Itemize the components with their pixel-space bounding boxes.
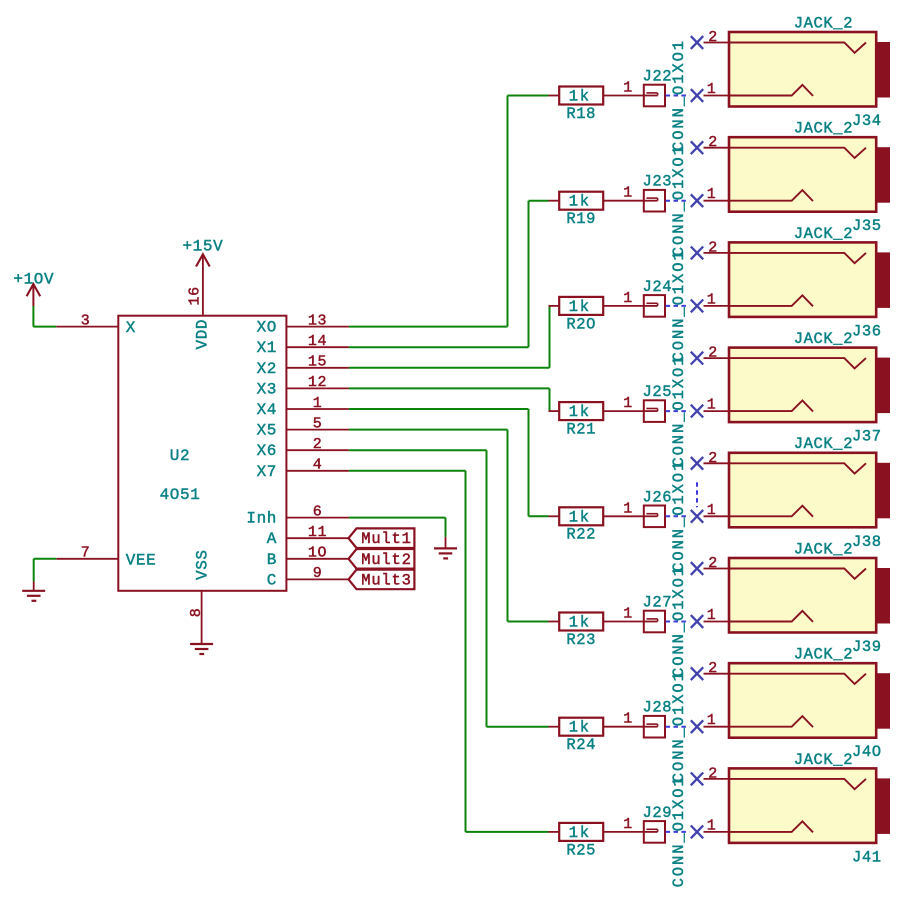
svg-text:R18: R18 (566, 105, 596, 123)
svg-text:1: 1 (707, 502, 717, 519)
svg-text:J39: J39 (852, 638, 882, 656)
svg-text:X2: X2 (257, 360, 277, 378)
svg-text:J26: J26 (643, 488, 673, 506)
svg-text:1: 1 (623, 606, 633, 623)
svg-text:X1: X1 (257, 339, 277, 357)
svg-text:1k: 1k (569, 88, 591, 106)
svg-text:1: 1 (623, 185, 633, 202)
svg-text:R25: R25 (566, 841, 596, 859)
svg-text:C: C (267, 571, 277, 589)
svg-text:Mult1: Mult1 (361, 530, 412, 548)
svg-text:U2: U2 (170, 447, 190, 465)
svg-text:JACK_2: JACK_2 (794, 435, 853, 453)
svg-text:4O51: 4O51 (160, 486, 201, 504)
svg-text:1k: 1k (569, 298, 591, 316)
svg-text:J37: J37 (852, 428, 882, 446)
svg-text:1: 1 (623, 290, 633, 307)
svg-text:2: 2 (708, 134, 718, 151)
svg-text:VSS: VSS (194, 549, 212, 580)
svg-text:J4O: J4O (852, 743, 882, 761)
svg-text:J28: J28 (643, 699, 673, 717)
svg-text:8: 8 (188, 608, 205, 618)
svg-text:X7: X7 (257, 463, 277, 481)
svg-text:15: 15 (308, 354, 327, 371)
svg-text:J29: J29 (643, 804, 673, 822)
svg-text:1O: 1O (308, 545, 327, 562)
svg-text:1k: 1k (569, 193, 591, 211)
svg-text:JACK_2: JACK_2 (794, 751, 853, 769)
svg-text:2: 2 (708, 29, 718, 46)
svg-text:1k: 1k (569, 824, 591, 842)
svg-text:2: 2 (708, 239, 718, 256)
svg-text:12: 12 (308, 374, 327, 391)
svg-text:J22: J22 (643, 68, 673, 86)
svg-text:J27: J27 (643, 594, 673, 612)
svg-text:X: X (126, 319, 136, 337)
svg-text:1k: 1k (569, 403, 591, 421)
svg-text:1: 1 (707, 291, 717, 308)
svg-text:X5: X5 (257, 422, 277, 440)
svg-text:J24: J24 (643, 278, 673, 296)
svg-text:JACK_2: JACK_2 (794, 540, 853, 558)
svg-text:1: 1 (707, 81, 717, 98)
svg-text:9: 9 (313, 565, 323, 582)
svg-text:3: 3 (81, 312, 91, 329)
svg-text:1: 1 (623, 80, 633, 97)
svg-text:14: 14 (308, 333, 327, 350)
svg-text:1: 1 (707, 397, 717, 414)
svg-text:1k: 1k (569, 719, 591, 737)
svg-text:11: 11 (308, 524, 327, 541)
svg-text:JACK_2: JACK_2 (794, 646, 853, 664)
svg-text:2: 2 (708, 765, 718, 782)
svg-text:JACK_2: JACK_2 (794, 225, 853, 243)
svg-text:J41: J41 (852, 848, 882, 866)
svg-text:Inh: Inh (246, 510, 277, 528)
svg-text:1k: 1k (569, 614, 591, 632)
svg-text:7: 7 (81, 545, 91, 562)
svg-text:J23: J23 (643, 173, 673, 191)
svg-text:1: 1 (707, 712, 717, 729)
svg-text:1: 1 (623, 395, 633, 412)
svg-text:A: A (267, 530, 277, 548)
svg-text:VDD: VDD (194, 319, 212, 350)
svg-text:4: 4 (313, 457, 323, 474)
svg-text:X4: X4 (257, 401, 277, 419)
svg-text:JACK_2: JACK_2 (794, 120, 853, 138)
svg-text:+15V: +15V (182, 238, 223, 256)
svg-text:R19: R19 (566, 210, 596, 228)
svg-text:1k: 1k (569, 508, 591, 526)
svg-text:1: 1 (707, 817, 717, 834)
svg-text:1: 1 (623, 816, 633, 833)
svg-text:16: 16 (186, 286, 203, 305)
svg-text:JACK_2: JACK_2 (794, 14, 853, 32)
svg-text:J35: J35 (852, 217, 882, 235)
svg-text:J38: J38 (852, 533, 882, 551)
svg-text:13: 13 (308, 312, 327, 329)
svg-text:J25: J25 (643, 383, 673, 401)
svg-text:J36: J36 (852, 322, 882, 340)
svg-text:1: 1 (707, 186, 717, 203)
svg-text:2: 2 (708, 555, 718, 572)
svg-text:XO: XO (257, 319, 277, 337)
svg-text:Mult2: Mult2 (361, 551, 412, 569)
svg-text:B: B (267, 551, 277, 569)
svg-text:2: 2 (313, 436, 323, 453)
svg-text:VEE: VEE (126, 552, 157, 570)
svg-text:1: 1 (623, 711, 633, 728)
svg-text:6: 6 (313, 503, 323, 520)
svg-text:R24: R24 (566, 736, 596, 754)
svg-text:1: 1 (623, 500, 633, 517)
svg-text:J34: J34 (852, 112, 882, 130)
svg-text:R23: R23 (566, 631, 596, 649)
svg-text:JACK_2: JACK_2 (794, 330, 853, 348)
svg-text:X3: X3 (257, 380, 277, 398)
svg-text:R22: R22 (566, 526, 596, 544)
svg-text:R2O: R2O (566, 315, 596, 333)
svg-text:1: 1 (313, 395, 323, 412)
svg-text:Mult3: Mult3 (361, 571, 412, 589)
svg-text:2: 2 (708, 450, 718, 467)
svg-text:+1OV: +1OV (13, 270, 54, 288)
svg-text:1: 1 (707, 607, 717, 624)
svg-text:2: 2 (708, 660, 718, 677)
svg-text:X6: X6 (257, 442, 277, 460)
svg-text:2: 2 (708, 345, 718, 362)
svg-text:R21: R21 (566, 421, 596, 439)
svg-text:5: 5 (313, 415, 323, 432)
